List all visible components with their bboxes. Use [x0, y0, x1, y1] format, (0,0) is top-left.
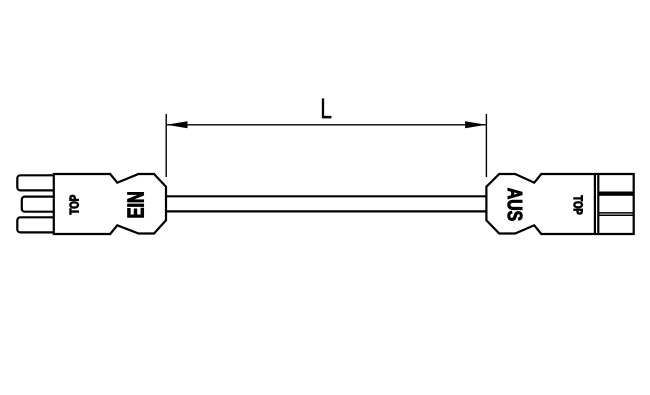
- cable upper line: [166, 195, 486, 197]
- right connector socket slot thick band: [598, 192, 633, 196]
- cable lower line: [166, 210, 486, 212]
- right connector socket block left edge: [597, 174, 599, 234]
- dimension label L: [322, 99, 331, 119]
- dimension extension line left: [165, 114, 167, 177]
- right connector body/socket divider line: [594, 174, 596, 234]
- dimension arrow left: [167, 121, 188, 128]
- right connector label AUS: [508, 188, 523, 220]
- right connector socket slot thin line 1: [598, 212, 633, 214]
- left connector label EIN: [128, 192, 144, 217]
- left connector pin 3: [17, 217, 55, 232]
- right connector label TOP: [574, 196, 583, 215]
- right connector socket slot thin line 2: [598, 214, 633, 216]
- left connector plug body outline: [54, 174, 166, 234]
- left connector pin 2: [22, 197, 56, 212]
- right connector body outline: [486, 174, 633, 234]
- dimension extension line right: [485, 114, 487, 177]
- dimension line: [166, 124, 486, 126]
- left connector label TOP: [70, 195, 79, 214]
- left connector pin 1: [17, 175, 55, 190]
- dimension arrow right: [465, 121, 486, 128]
